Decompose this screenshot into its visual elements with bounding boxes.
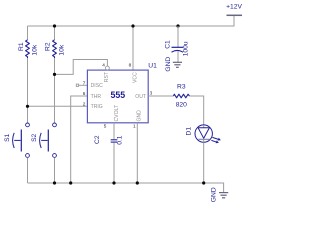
switch S1 push-to-make — [4, 123, 30, 157]
svg-text:U1: U1 — [148, 62, 157, 69]
svg-text:GND: GND — [165, 57, 172, 72]
wire R1 bottom lead to S1 — [27, 58, 29, 123]
svg-text:100u: 100u — [182, 41, 189, 56]
svg-text:VCC: VCC — [132, 72, 138, 83]
wire DISC stub (pin 7, unconnected) — [79, 84, 88, 86]
svg-text:5: 5 — [104, 123, 107, 128]
wire THR net (pin 6 down to ground rail) — [71, 96, 88, 183]
power symbol +12V — [226, 3, 242, 15]
svg-text:8: 8 — [129, 62, 132, 67]
node C2 rail junction — [112, 181, 115, 184]
resistor R3 — [174, 84, 190, 109]
svg-text:CVOLT: CVOLT — [114, 105, 120, 122]
wire LED cathode to rail — [203, 143, 205, 184]
node LED rail junction — [202, 181, 205, 184]
LED D1 — [185, 125, 221, 143]
node THR rail junction — [69, 181, 72, 184]
svg-text:10k: 10k — [32, 44, 39, 55]
svg-text:GND: GND — [137, 110, 143, 122]
svg-text:DISC: DISC — [91, 83, 103, 89]
wire TRIG net (R1/S1 junction to pin 2) — [28, 105, 88, 107]
node VCC rail junction — [131, 24, 134, 27]
capacitor C2 — [94, 135, 124, 145]
capacitor C1 — [165, 40, 190, 56]
op-amp U1 555 timer body — [87, 62, 157, 122]
wire C2 bottom lead — [113, 143, 115, 183]
svg-text:C1: C1 — [165, 40, 172, 49]
node R2/RST junction — [53, 73, 56, 76]
node DISC open terminal — [76, 84, 78, 86]
svg-text:10k: 10k — [58, 44, 65, 55]
svg-text:OUT: OUT — [135, 94, 146, 100]
svg-text:0.1: 0.1 — [117, 135, 124, 145]
wire C1 bottom lead — [177, 51, 179, 62]
svg-text:S1: S1 — [4, 133, 11, 141]
svg-text:RST: RST — [104, 72, 110, 82]
pin 4 RST inversion bubble — [106, 66, 110, 70]
svg-text:555: 555 — [111, 90, 126, 100]
wire IC GND pin 1 to rail — [136, 123, 138, 183]
node R1/TRIG junction — [26, 105, 29, 108]
wire S1 bottom lead — [27, 158, 29, 184]
node R2 rail junction — [53, 24, 56, 27]
svg-text:2: 2 — [83, 102, 86, 107]
svg-text:C2: C2 — [94, 135, 101, 144]
node S2 rail junction — [53, 181, 56, 184]
svg-text:R1: R1 — [18, 42, 25, 51]
wire top +12V rail — [28, 15, 235, 26]
node C1 rail junction — [176, 24, 179, 27]
svg-text:THR: THR — [91, 94, 102, 100]
wire S2 bottom lead — [54, 158, 56, 184]
wire R2 bottom lead to S2 — [54, 58, 56, 123]
svg-text:GND: GND — [211, 187, 218, 202]
svg-text:4: 4 — [102, 62, 105, 67]
svg-text:7: 7 — [83, 81, 86, 86]
svg-text:R3: R3 — [177, 84, 186, 91]
svg-text:S2: S2 — [31, 133, 38, 141]
wire VCC pin 8 to rail — [132, 26, 134, 70]
svg-text:D1: D1 — [185, 127, 192, 136]
wire R2 top lead — [54, 26, 56, 40]
resistor R2 — [45, 40, 66, 58]
ground (C1) — [165, 57, 182, 72]
wire R1 top lead — [27, 26, 29, 40]
wire CVOLT pin 5 to C2 — [113, 123, 115, 140]
wire C1 top lead — [177, 26, 179, 47]
switch S2 push-to-make — [31, 123, 56, 157]
svg-text:3: 3 — [150, 91, 153, 96]
wire OUT pin 3 to R3 — [148, 95, 173, 97]
svg-text:1: 1 — [133, 123, 136, 128]
wire R3 to LED — [190, 96, 204, 125]
svg-text:TRIG: TRIG — [91, 104, 103, 110]
resistor R1 — [18, 40, 38, 58]
wire bottom ground rail — [28, 183, 224, 192]
svg-text:R2: R2 — [45, 42, 52, 51]
svg-text:6: 6 — [83, 91, 86, 96]
svg-text:820: 820 — [176, 101, 187, 108]
node IC GND rail junction — [136, 181, 139, 184]
wire RST net (R2/S2 junction to pin 4) — [55, 60, 108, 75]
svg-text:+12V: +12V — [226, 3, 242, 10]
ground (rail) — [211, 187, 229, 202]
